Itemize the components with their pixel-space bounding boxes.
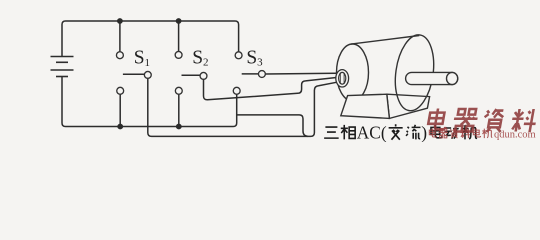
svg-text:S: S <box>192 47 203 68</box>
svg-text:S: S <box>246 48 257 69</box>
svg-text:AC(: AC( <box>357 123 387 142</box>
svg-text:1: 1 <box>145 57 151 69</box>
svg-text:3: 3 <box>257 57 263 69</box>
svg-text:qdun.com: qdun.com <box>494 130 536 141</box>
svg-text:2: 2 <box>203 56 209 68</box>
svg-text:): ) <box>421 123 427 142</box>
svg-text:S: S <box>134 48 145 69</box>
